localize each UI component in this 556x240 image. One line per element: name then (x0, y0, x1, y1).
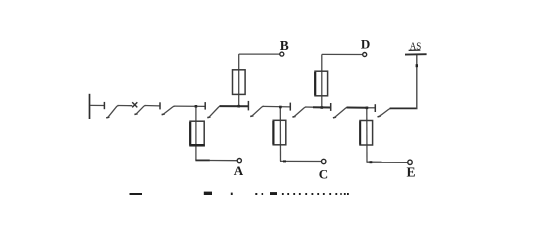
busbar terminal (left source bar) (89, 94, 91, 119)
caption fragment: top of character block (204, 192, 212, 195)
svg-text:E: E (407, 165, 416, 180)
wire to terminal C (280, 160, 321, 162)
svg-text:AS: AS (410, 41, 422, 52)
ink blob on E wire (370, 161, 373, 163)
disconnector QS8 blade (379, 108, 391, 116)
fault point x-mark (132, 102, 137, 107)
disconnector QS7 blade foot (333, 116, 336, 119)
caption fragment: stroke top (231, 193, 233, 195)
disconnector QS1 blade (108, 106, 119, 118)
caption fragment: stroke tops row (282, 193, 349, 195)
wire (riser from trunk through fuse FU-B up to bend) (238, 54, 240, 106)
wire (riser from trunk through fuse FU-D up to bend) (321, 54, 323, 107)
wire (drop from trunk to fuse FU-A and down to bend) (195, 106, 197, 160)
wire (118, 105, 133, 107)
svg-text:B: B (280, 38, 289, 53)
wire (368, 107, 375, 109)
disconnector QS7 blade (335, 107, 348, 117)
AS label underline (409, 49, 421, 51)
disconnector QS7 fixed contact (330, 103, 332, 111)
wire to terminal E (367, 161, 408, 163)
wire (thick trunk segment) (220, 105, 249, 107)
wire (thick trunk segment) (347, 107, 369, 109)
fuse FU-D (315, 71, 328, 96)
fuse FU-B (233, 70, 246, 95)
ink blob on C wire (283, 160, 286, 162)
ink blob on AS riser (416, 64, 418, 67)
wire to terminal A (210, 160, 237, 162)
disconnector QS6 fixed contact (289, 103, 291, 111)
disconnector QS5 blade foot (250, 115, 253, 118)
wire (drop from trunk through fuse FU-E down to bend) (366, 108, 368, 162)
disconnector QS4 blade (209, 106, 221, 117)
terminal C (circle) (322, 159, 326, 163)
disconnector QS3 blade foot (162, 113, 165, 116)
disconnector QS3 blade (163, 106, 175, 114)
svg-text:C: C (319, 166, 328, 181)
disconnector QS6 blade foot (292, 115, 295, 118)
disconnector QS3 fixed contact (159, 102, 161, 109)
terminal B (circle) (280, 52, 284, 56)
wire to terminal D (322, 53, 363, 55)
terminal D (circle) (363, 53, 367, 57)
wire (AS riser) (416, 55, 418, 109)
fuse FU-C (273, 120, 286, 145)
wire to terminal B (239, 53, 280, 55)
caption fragment: top of character 图 (130, 193, 143, 195)
busbar terminal AS (T-bar) (405, 53, 427, 55)
svg-text:D: D (361, 36, 370, 51)
disconnector QS5 fixed contact (247, 101, 249, 111)
junction node E-tap (366, 107, 369, 110)
caption fragment: top of character block (270, 192, 277, 195)
disconnector QS4 blade foot (207, 116, 210, 119)
junction node B-tap (237, 105, 240, 108)
wire (145, 105, 160, 107)
terminal E (circle) (408, 160, 412, 164)
terminal A (circle) (237, 159, 241, 163)
caption fragment: stroke top (255, 193, 257, 195)
disconnector QS8 blade foot (378, 115, 381, 118)
disconnector QS8 fixed contact (374, 104, 376, 112)
wire (90, 104, 104, 106)
wire (174, 105, 205, 107)
disconnector QS1 blade foot (106, 116, 109, 119)
disconnector QS2 blade foot (134, 113, 137, 116)
caption fragment: stroke top (262, 193, 264, 195)
junction node A-tap (195, 105, 198, 108)
disconnector QS5 blade (252, 106, 264, 116)
junction node C-tap (279, 106, 282, 109)
svg-text:A: A (234, 163, 244, 178)
wire (305, 106, 313, 108)
wire (thicker stub after bend) (195, 159, 209, 161)
fuse FU-A (190, 121, 205, 146)
wire (263, 105, 291, 108)
disconnector QS2 blade (136, 106, 146, 115)
wire (thick trunk segment) (313, 106, 331, 108)
disconnector QS4 fixed contact (204, 102, 206, 110)
disconnector QS6 blade (294, 107, 306, 117)
junction node D-tap (321, 106, 324, 109)
wire (drop from trunk through fuse FU-C down to bend) (279, 107, 281, 161)
disconnector QS1 fixed contact (103, 102, 105, 109)
wire (thick end segment to AS riser) (390, 107, 418, 109)
fuse FU-E (360, 121, 373, 146)
